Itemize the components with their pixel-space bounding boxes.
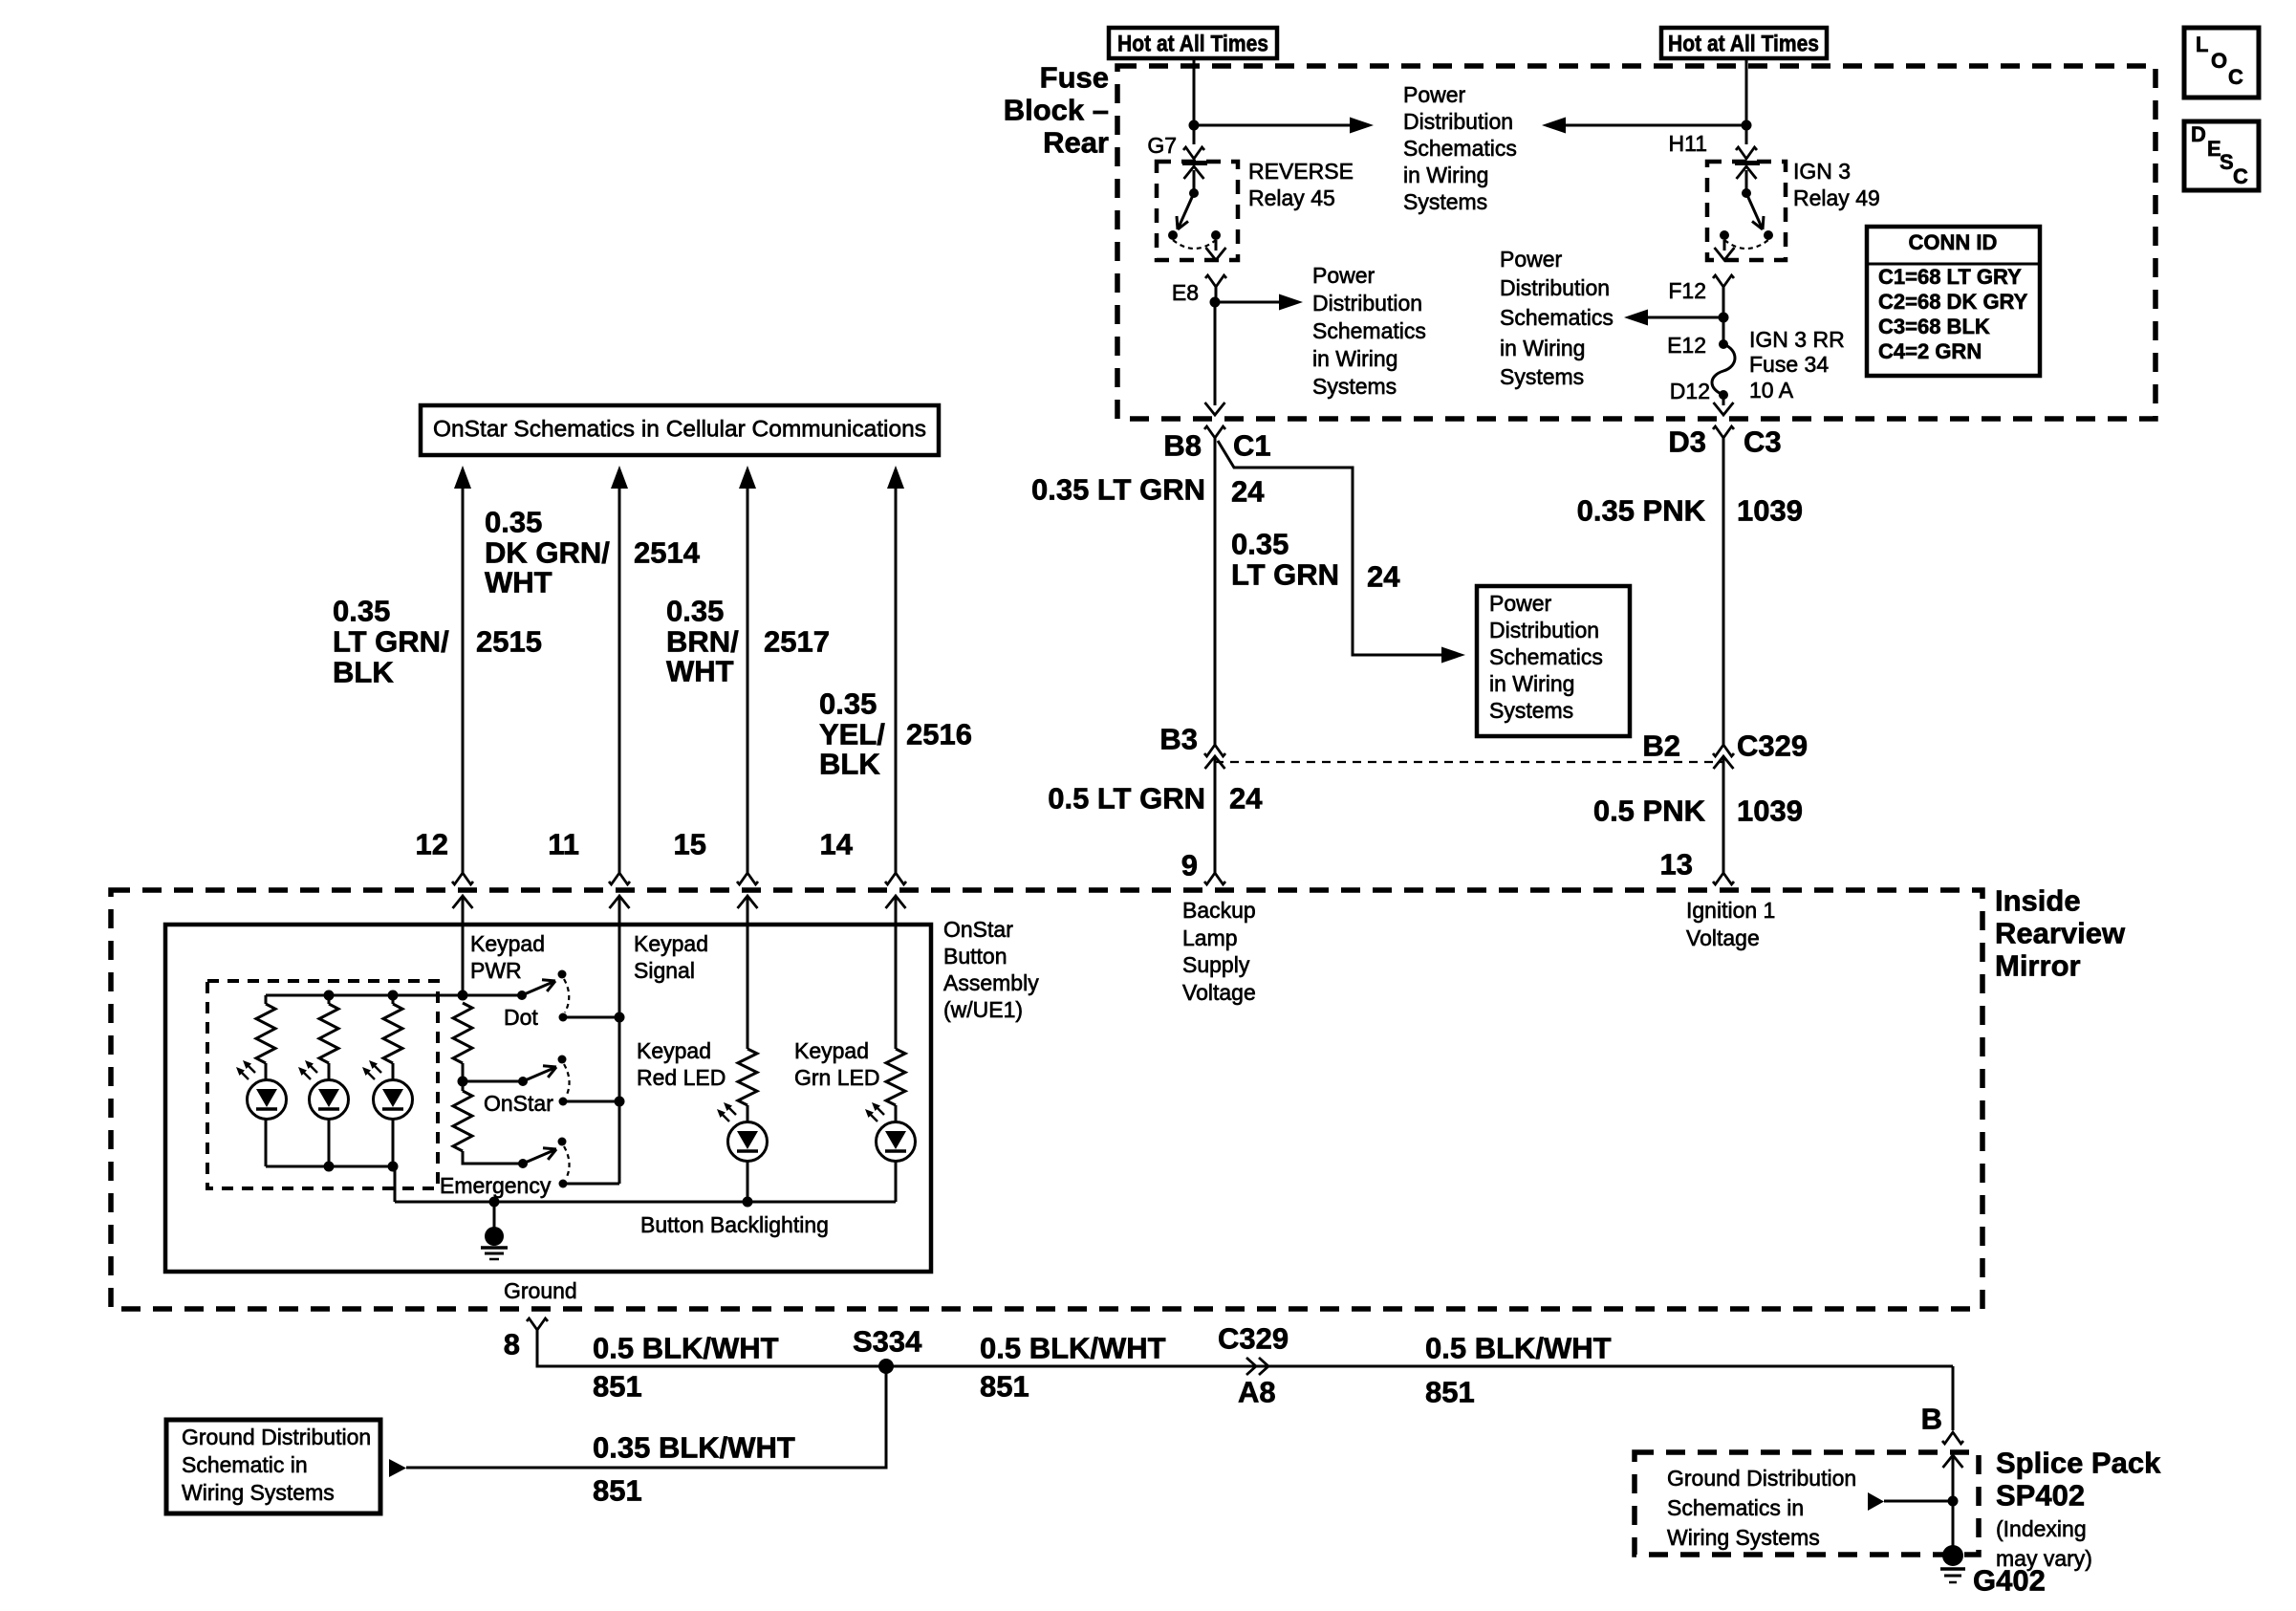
label 0.5 BLK/WHT (middle)	[980, 1332, 1166, 1365]
label pin 13	[1660, 848, 1693, 882]
svg-text:Distribution: Distribution	[1500, 275, 1610, 300]
svg-text:0.5 LT GRN: 0.5 LT GRN	[1048, 782, 1205, 816]
svg-text:CONN ID: CONN ID	[1909, 230, 1998, 254]
connector fork pin 14	[885, 873, 906, 884]
svg-text:Dot: Dot	[504, 1005, 538, 1030]
svg-text:Rear: Rear	[1043, 126, 1109, 160]
connector fork F12	[1713, 275, 1734, 313]
wire: down to splice pack B	[1952, 1366, 1955, 1430]
svg-text:in Wiring: in Wiring	[1489, 671, 1574, 696]
label 0.5 LT GRN	[1048, 782, 1205, 816]
label 24 (branch)	[1367, 560, 1400, 594]
svg-text:C329: C329	[1737, 729, 1808, 763]
node: fuse 34 bottom terminal D12	[1719, 390, 1728, 400]
wire: bottom rail drop	[394, 1166, 397, 1202]
wire: S334 branch to ground distribution	[406, 1366, 886, 1468]
wire: B8 to B3	[1214, 438, 1217, 745]
svg-text:YEL/: YEL/	[819, 718, 885, 751]
wire: LED1 lower stem	[265, 1119, 268, 1166]
Inside Rearview Mirror dashed box	[111, 890, 1982, 1309]
wire arrow to Power Distribution Schematics (top left)	[1194, 118, 1374, 134]
svg-text:2517: 2517	[764, 625, 830, 659]
wire: D12 to D3	[1722, 395, 1725, 405]
node: rail junction LED3	[388, 991, 399, 1001]
node: splice S334	[878, 1359, 894, 1374]
label 0.35 BLK/WHT	[593, 1431, 795, 1465]
label Backup Lamp Supply Voltage	[1182, 898, 1256, 1005]
svg-text:H11: H11	[1669, 131, 1708, 156]
wire: LED2 upper stem	[328, 995, 331, 1004]
node: signal bus junction (Dot)	[615, 1012, 625, 1023]
node: bottom rail junction LED3	[388, 1162, 399, 1172]
label 2514	[634, 536, 701, 570]
label D3	[1668, 425, 1706, 459]
connector arrow D3 (down)	[1714, 403, 1734, 415]
fuse 34 element (S-curve)	[1712, 344, 1735, 395]
node: SW2 lower contact	[559, 1098, 568, 1106]
label 2515	[476, 625, 542, 659]
LED D3 lightning	[362, 1060, 381, 1079]
svg-text:Hot at All Times: Hot at All Times	[1668, 32, 1819, 57]
connector fork pin 8	[527, 1318, 548, 1330]
relay 49 armature arm	[1746, 193, 1764, 229]
label B	[1921, 1403, 1942, 1436]
wire: LED3 upper stem	[392, 995, 395, 1004]
svg-text:Ground Distribution: Ground Distribution	[182, 1425, 371, 1449]
label 851 (right)	[1425, 1376, 1475, 1409]
label E12	[1667, 333, 1706, 358]
label B3	[1159, 723, 1198, 756]
svg-text:C329: C329	[1218, 1322, 1289, 1356]
label B8	[1163, 429, 1202, 463]
label H11	[1669, 131, 1708, 156]
label: Power Distribution Schematics in Wiring Systems (middle)	[1500, 247, 1614, 389]
wire: B3 to pin 9	[1214, 756, 1217, 873]
connector fork E8	[1205, 275, 1226, 298]
internal ground stem	[493, 1202, 496, 1228]
node: relay 49 right contact	[1764, 230, 1773, 240]
label 851 (branch)	[593, 1474, 642, 1508]
node: relay 45 right contact	[1211, 230, 1221, 240]
inline connector chevrons C329	[1246, 1358, 1268, 1375]
svg-text:(Indexing: (Indexing	[1996, 1516, 2087, 1541]
LED red lightning	[717, 1102, 736, 1121]
label IGN 3 Relay 49	[1793, 159, 1880, 210]
svg-text:851: 851	[980, 1370, 1029, 1404]
svg-text:Schematic in: Schematic in	[182, 1452, 308, 1477]
relay 49 output arrow (down)	[1715, 240, 1735, 260]
svg-text:Distribution: Distribution	[1403, 109, 1513, 134]
relay 45 output arrow (down)	[1206, 240, 1226, 260]
resistor R-LED3	[383, 1004, 402, 1063]
connector arrow B8 (down)	[1205, 403, 1225, 415]
svg-text:Red LED: Red LED	[637, 1065, 726, 1090]
label Inside Rearview Mirror	[1995, 884, 2126, 983]
label 0.35 LT GRN/ BLK	[333, 595, 449, 689]
relay 49 contact travel dashed arc	[1724, 240, 1768, 249]
node: bottom rail junction LED2	[324, 1162, 335, 1172]
svg-text:in Wiring: in Wiring	[1403, 163, 1488, 187]
arrowhead inside splice pack	[1868, 1492, 1884, 1511]
svg-text:14: 14	[820, 828, 854, 861]
node: rail junction LED2	[324, 991, 335, 1001]
wire: keypad signal bus	[618, 907, 621, 1184]
svg-text:Keypad: Keypad	[470, 931, 545, 956]
wire: red resistor to diode	[747, 1105, 749, 1122]
svg-text:WHT: WHT	[666, 655, 734, 688]
svg-text:0.5 PNK: 0.5 PNK	[1593, 795, 1706, 828]
label A8	[1238, 1376, 1276, 1409]
connector fork B2	[1713, 745, 1734, 756]
wire arrow to Power Distribution Schematics (from F12)	[1624, 310, 1723, 326]
svg-text:B2: B2	[1642, 729, 1680, 763]
LED D3	[374, 1080, 413, 1120]
wire: splice pack arrow to ground wire	[1884, 1500, 1953, 1503]
connector arrow B3 (up)	[1205, 756, 1225, 769]
svg-text:12: 12	[416, 828, 448, 861]
svg-text:Ignition 1: Ignition 1	[1686, 898, 1775, 923]
svg-text:Voltage: Voltage	[1182, 980, 1256, 1005]
node: backlight rail ground tap	[489, 1197, 500, 1208]
label REVERSE Relay 45	[1248, 159, 1354, 210]
svg-text:PWR: PWR	[470, 958, 522, 983]
label 0.35 BRN/ WHT	[666, 595, 739, 688]
svg-text:Signal: Signal	[634, 958, 695, 983]
node: SW1 lower contact	[559, 1013, 568, 1022]
wire: LED bottom rail	[266, 1165, 395, 1168]
svg-text:A8: A8	[1238, 1376, 1276, 1409]
switch SW2 travel dashed arc	[564, 1064, 570, 1097]
power label box: Hot at All Times (left)	[1109, 28, 1277, 58]
node: relay 49 armature pivot	[1742, 188, 1751, 198]
svg-text:B3: B3	[1159, 723, 1198, 756]
CONN ID table header	[1909, 230, 1998, 254]
svg-text:Keypad: Keypad	[637, 1038, 711, 1063]
svg-text:0.5 BLK/WHT: 0.5 BLK/WHT	[593, 1332, 779, 1365]
svg-text:Fuse: Fuse	[1040, 61, 1109, 95]
svg-text:Inside: Inside	[1995, 884, 2081, 918]
label 1039 (lower)	[1737, 795, 1803, 828]
svg-text:0.5 BLK/WHT: 0.5 BLK/WHT	[1425, 1332, 1612, 1365]
svg-text:Schematics: Schematics	[1489, 644, 1603, 669]
relay 49 fixed contact bar	[1735, 161, 1760, 165]
wire: grn LED to backlight rail	[895, 1161, 898, 1202]
label G7	[1147, 133, 1177, 158]
label C1	[1233, 429, 1271, 463]
svg-text:0.35 BLK/WHT: 0.35 BLK/WHT	[593, 1431, 795, 1465]
svg-text:Systems: Systems	[1489, 698, 1573, 723]
svg-text:Fuse 34: Fuse 34	[1749, 352, 1829, 377]
switch SW3 Emergency arm	[523, 1148, 556, 1164]
label 0.35 DK GRN/ WHT	[485, 506, 610, 599]
relay 45 coil-side arrow (up)	[1184, 166, 1204, 193]
label S334	[853, 1325, 922, 1359]
svg-text:BLK: BLK	[333, 656, 394, 689]
svg-text:IGN 3: IGN 3	[1793, 159, 1851, 184]
LED D2	[310, 1080, 349, 1120]
svg-text:E12: E12	[1667, 333, 1706, 358]
label: Ground Distribution Schematics in Wiring Systems (splice)	[1667, 1466, 1856, 1550]
label 851 (middle)	[980, 1370, 1029, 1404]
svg-text:Supply: Supply	[1182, 952, 1250, 977]
OnStar Schematics in Cellular Communications box	[421, 405, 939, 455]
connector fork pin 15	[737, 873, 758, 884]
label Button Backlighting	[640, 1212, 829, 1237]
LED D1	[248, 1080, 287, 1120]
label: Power Distribution Schematics in Wiring Systems (top)	[1403, 82, 1517, 214]
wire arrow into cellular box (2516 grn LED)	[887, 466, 904, 873]
svg-text:2515: 2515	[476, 625, 542, 659]
switch SW2 OnStar pivot	[518, 1077, 528, 1086]
svg-text:G402: G402	[1973, 1564, 2046, 1598]
svg-text:WHT: WHT	[485, 566, 552, 599]
svg-text:Ground: Ground	[504, 1278, 577, 1303]
node: relay 45 left contact	[1168, 230, 1178, 240]
resistor R-red	[738, 1049, 757, 1105]
CONN ID row C3	[1878, 315, 1990, 338]
svg-text:0.35 PNK: 0.35 PNK	[1577, 494, 1706, 528]
switch SW3 Emergency pivot	[518, 1159, 528, 1168]
connector arrow pin 15 (up)	[738, 896, 758, 925]
ground distribution schematic box (left)	[166, 1420, 380, 1513]
svg-text:Voltage: Voltage	[1686, 925, 1760, 950]
svg-text:Relay 49: Relay 49	[1793, 185, 1880, 210]
svg-text:0.5 BLK/WHT: 0.5 BLK/WHT	[980, 1332, 1166, 1365]
svg-text:OnStar: OnStar	[484, 1091, 553, 1116]
node: SW3 upper contact	[558, 1138, 567, 1146]
arrowhead at ground distribution box	[389, 1459, 406, 1477]
OnStar Button Assembly solid box	[165, 925, 931, 1272]
label pin 15	[674, 828, 706, 861]
wire: pin 8 ground drop	[537, 1330, 1953, 1366]
label 0.35 LT GRN (B8)	[1031, 473, 1205, 507]
label OnStar Button Assembly (w/UE1)	[943, 917, 1039, 1022]
svg-text:O: O	[2211, 49, 2227, 73]
svg-text:Power: Power	[1500, 247, 1563, 272]
svg-text:24: 24	[1367, 560, 1400, 594]
svg-text:S334: S334	[853, 1325, 922, 1359]
connector fork below D3	[1713, 426, 1734, 438]
switch SW1 Dot arm	[522, 980, 555, 995]
svg-text:C3=68 BLK: C3=68 BLK	[1878, 315, 1990, 338]
svg-text:10 A: 10 A	[1749, 378, 1794, 403]
svg-text:Ground Distribution: Ground Distribution	[1667, 1466, 1856, 1491]
svg-text:0.35: 0.35	[485, 506, 542, 539]
wire: PWR chain mid	[462, 1063, 465, 1091]
resistor R-LED2	[319, 1004, 338, 1063]
node: relay 45 armature pivot	[1189, 188, 1199, 198]
svg-text:851: 851	[1425, 1376, 1475, 1409]
wire: LED2 to diode	[328, 1063, 331, 1080]
CONN ID row C2	[1878, 290, 2028, 314]
resistor R-grn	[886, 1049, 905, 1105]
svg-text:B8: B8	[1163, 429, 1202, 463]
connector arrow B2 (up)	[1714, 756, 1734, 769]
connector fork pin 9	[1204, 873, 1225, 884]
svg-text:Schematics: Schematics	[1403, 136, 1517, 161]
label Ignition 1 Voltage	[1686, 898, 1775, 950]
label Emergency	[440, 1173, 552, 1198]
switch SW3 travel dashed arc	[564, 1146, 570, 1179]
svg-text:Systems: Systems	[1500, 364, 1584, 389]
svg-text:BRN/: BRN/	[666, 625, 739, 659]
label 851 (left)	[593, 1370, 642, 1404]
label F12	[1668, 278, 1706, 303]
wire arrow into cellular box (2515 keypad PWR)	[454, 466, 471, 873]
wire: B2 to pin 13	[1722, 756, 1725, 873]
wire: SW1 to signal bus	[563, 1016, 619, 1019]
label 24 (lower)	[1229, 782, 1263, 816]
wire: D3 to B2	[1722, 438, 1725, 745]
node: SW1 upper contact	[558, 970, 567, 979]
node: rail junction keypad PWR	[458, 991, 468, 1001]
label IGN 3 RR Fuse 34 10 A	[1749, 327, 1845, 403]
svg-text:Power: Power	[1403, 82, 1466, 107]
label: Power Distribution Schematics in Wiring Systems (E8)	[1312, 263, 1426, 399]
relay 45 contact travel dashed arc	[1173, 240, 1216, 249]
svg-text:Grn LED: Grn LED	[794, 1065, 879, 1090]
CONN ID row C4	[1878, 339, 1982, 363]
svg-text:Backup: Backup	[1182, 898, 1256, 923]
relay 45 armature arm	[1177, 193, 1194, 229]
connector arrow pin 11 (up)	[610, 896, 630, 925]
LED D2 lightning	[298, 1060, 317, 1079]
connector fork B	[1942, 1432, 1963, 1444]
connector fork pin 13	[1713, 873, 1734, 884]
wire: OnStar tap	[463, 1080, 523, 1083]
svg-text:Button: Button	[943, 944, 1007, 969]
svg-text:IGN 3 RR: IGN 3 RR	[1749, 327, 1845, 352]
wire: red LED to backlight rail	[747, 1161, 749, 1202]
label 0.5 BLK/WHT (left)	[593, 1332, 779, 1365]
label Splice Pack SP402	[1996, 1447, 2161, 1513]
wire: grn LED feed	[895, 907, 898, 1049]
CONN ID table box	[1867, 227, 2040, 376]
relay 45 dashed box	[1157, 162, 1238, 260]
svg-text:Systems: Systems	[1403, 189, 1487, 214]
connector fork below B8	[1204, 426, 1225, 438]
wire: F12 to E12	[1722, 317, 1725, 344]
label C329 (inline connector)	[1737, 729, 1808, 763]
svg-text:C: C	[2233, 164, 2248, 188]
resistor R-LED1	[256, 1004, 275, 1063]
svg-text:E8: E8	[1172, 280, 1199, 305]
internal ground symbol	[481, 1227, 508, 1259]
resistor R-PWR1	[453, 1003, 472, 1063]
relay 49 coil-side arrow (up)	[1737, 166, 1757, 193]
connector fork pin 11	[609, 873, 630, 884]
label pin 14	[820, 828, 854, 861]
label pin 12	[416, 828, 448, 861]
svg-text:in Wiring: in Wiring	[1500, 336, 1585, 360]
svg-text:Splice Pack: Splice Pack	[1996, 1447, 2161, 1480]
label pin 9	[1181, 849, 1198, 882]
label Keypad Signal	[634, 931, 708, 983]
switch SW1 travel dashed arc	[564, 979, 569, 1012]
svg-text:B: B	[1921, 1403, 1942, 1436]
svg-text:D3: D3	[1668, 425, 1706, 459]
wire: hot feed to G7	[1193, 58, 1196, 144]
wire: LED top rail	[266, 994, 522, 997]
svg-text:Assembly: Assembly	[943, 970, 1039, 995]
svg-text:D: D	[2191, 122, 2206, 146]
svg-text:Emergency: Emergency	[440, 1173, 552, 1198]
node: junction keypad PWR / OnStar tap	[458, 1077, 468, 1087]
ground G402 symbol	[1940, 1545, 1965, 1582]
wire: LED3 to diode	[392, 1063, 395, 1080]
label 2517	[764, 625, 830, 659]
wire: E8 down to B8	[1214, 302, 1217, 405]
svg-text:8: 8	[504, 1328, 520, 1361]
wire arrow into cellular box (2517 red LED)	[739, 466, 756, 873]
connector arrow pin 12 (up)	[453, 896, 473, 925]
svg-text:D12: D12	[1670, 379, 1710, 403]
svg-text:Schematics in: Schematics in	[1667, 1495, 1804, 1520]
label Dot	[504, 1005, 538, 1030]
wire: LED1 to diode	[265, 1063, 268, 1080]
node: junction at E8	[1210, 297, 1221, 308]
svg-text:24: 24	[1229, 782, 1263, 816]
svg-text:BLK: BLK	[819, 748, 880, 781]
LED grn	[877, 1122, 916, 1162]
wire: LED1 upper stem	[265, 995, 268, 1004]
svg-text:24: 24	[1231, 475, 1265, 509]
fuse block dashed box	[1117, 66, 2155, 419]
label: Power Distribution Schematics in Wiring Systems (boxed)	[1489, 591, 1603, 723]
label 24 (B8)	[1231, 475, 1265, 509]
connector arrow pin 14 (up)	[886, 896, 906, 925]
node: backlight rail red LED junction	[743, 1197, 753, 1208]
svg-text:C1=68 LT GRY: C1=68 LT GRY	[1878, 265, 2022, 289]
svg-text:C3: C3	[1744, 425, 1782, 459]
connector fork B3	[1204, 745, 1225, 756]
svg-text:2516: 2516	[906, 718, 972, 751]
svg-text:Mirror: Mirror	[1995, 949, 2081, 983]
wire: hot feed to H11	[1745, 58, 1748, 144]
connector arrow B (up)	[1943, 1455, 1963, 1501]
power label box: Hot at All Times (right)	[1661, 28, 1827, 58]
svg-text:Button Backlighting: Button Backlighting	[640, 1212, 829, 1237]
connector fork pin 12	[452, 873, 473, 884]
label Fuse Block - Rear	[1004, 61, 1109, 160]
wire: grn resistor to diode	[895, 1105, 898, 1122]
label 2516	[906, 718, 972, 751]
svg-text:LT GRN/: LT GRN/	[333, 625, 449, 659]
svg-text:G7: G7	[1147, 133, 1177, 158]
node: SW2 upper contact	[558, 1056, 567, 1064]
label 0.5 BLK/WHT (right)	[1425, 1332, 1612, 1365]
svg-text:Keypad: Keypad	[634, 931, 708, 956]
splice pack dashed box	[1635, 1452, 1979, 1555]
label G402	[1973, 1564, 2046, 1598]
label D12	[1670, 379, 1710, 403]
power distribution schematics box (branch target)	[1477, 586, 1630, 736]
resistor R-PWR2	[453, 1091, 472, 1151]
wire: SW3 to signal bus	[563, 1183, 619, 1186]
svg-text:OnStar: OnStar	[943, 917, 1013, 942]
svg-text:OnStar Schematics in Cellular: OnStar Schematics in Cellular Communicat…	[433, 417, 926, 443]
node: splice pack junction	[1948, 1496, 1959, 1507]
svg-text:Wiring Systems: Wiring Systems	[1667, 1525, 1820, 1550]
inline connector dashed line B3-B2	[1215, 761, 1723, 763]
label pin 8	[504, 1328, 520, 1361]
wire arrow into cellular box (2514 keypad signal)	[611, 466, 628, 873]
wire: to G402 ground	[1952, 1501, 1955, 1547]
svg-text:0.35: 0.35	[1231, 528, 1289, 561]
label 0.35 YEL/ BLK	[819, 687, 885, 781]
svg-text:Block –: Block –	[1004, 94, 1109, 127]
connector fork H11	[1736, 147, 1757, 159]
